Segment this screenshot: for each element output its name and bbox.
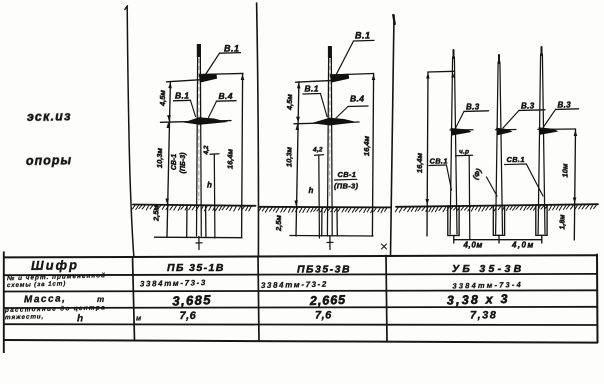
- label B3 for P3b: [521, 102, 535, 111]
- dim text 16,4м P2: [362, 135, 371, 156]
- bottom dim line P3 gap2 with ticks: [499, 236, 542, 243]
- svg-text:СВ.1: СВ.1: [507, 155, 525, 164]
- label B1 left mid of P1: [175, 91, 189, 101]
- table row line 3: [4, 290, 598, 291]
- svg-text:эск.из: эск.из: [27, 109, 72, 124]
- svg-text:3384тм-73-2: 3384тм-73-2: [261, 280, 328, 290]
- svg-text:СВ.1: СВ.1: [430, 157, 448, 166]
- label B1 top of P2: [355, 31, 371, 41]
- bottom dimension line P1: [155, 236, 243, 239]
- svg-text:2,5м: 2,5м: [274, 215, 283, 232]
- svg-text:опоры: опоры: [26, 153, 72, 168]
- dim text 10,3м P1: [155, 147, 164, 168]
- dim text 16,4м P1: [226, 148, 235, 169]
- table top border: [4, 255, 598, 257]
- table row line 5: [4, 323, 598, 326]
- svg-text:4,5м: 4,5м: [285, 94, 294, 111]
- table right border: [596, 254, 599, 343]
- small dim ч.р line P3: [459, 149, 469, 156]
- table column divider 2: [258, 256, 259, 342]
- label (Ф) P3: [471, 167, 484, 181]
- label B4 right mid of P1: [219, 91, 233, 101]
- pole P3c shaft (tapered): [538, 47, 545, 234]
- top crossarm of P2: [330, 74, 349, 83]
- frame divider line 1: [125, 6, 134, 256]
- table bottom border: [4, 340, 598, 343]
- svg-text:4,0м: 4,0м: [463, 241, 483, 250]
- svg-text:3384тм-73-3: 3384тм-73-3: [140, 278, 207, 288]
- table left border: [3, 252, 5, 354]
- dim text 4,0м gap1: [463, 241, 483, 250]
- table column divider 1: [133, 256, 135, 341]
- dim text 4,0м gap2: [511, 241, 535, 250]
- top dimension line P1: [167, 73, 244, 81]
- small dim 4,2 line P2: [315, 155, 324, 238]
- left dimension line P2: [294, 82, 300, 236]
- label СВ.1 for P3b: [507, 155, 525, 164]
- svg-text:16,4м: 16,4м: [362, 135, 371, 156]
- svg-text:В.4: В.4: [219, 91, 233, 101]
- top dimension line P2: [296, 74, 374, 83]
- pole P3a footing: [448, 206, 459, 236]
- pole P3c footing: [536, 205, 547, 235]
- right dimension line P1: [242, 73, 243, 237]
- svg-text:УБ 35-3В: УБ 35-3В: [452, 263, 524, 275]
- label B3 for P3c: [558, 101, 572, 110]
- table row line 2: [4, 274, 598, 275]
- dim text 10,3м P2: [285, 146, 294, 167]
- ground line P1: [132, 205, 255, 212]
- table column divider 3: [386, 255, 387, 342]
- svg-text:3,685: 3,685: [172, 292, 212, 308]
- svg-text:h: h: [309, 186, 314, 195]
- pole P3b footing: [493, 206, 504, 236]
- svg-text:В.3: В.3: [521, 102, 535, 111]
- bottom dim line P3 gap1 with ticks: [454, 236, 499, 243]
- svg-text:(ПБ-3): (ПБ-3): [180, 152, 187, 174]
- pole type text СВ-1 (ПБ-3) P1 rotated: [171, 152, 187, 174]
- svg-text:h: h: [207, 181, 212, 190]
- pole P1 shaft: [197, 44, 202, 236]
- crossarm of P3c: [538, 127, 576, 135]
- svg-text:расстояние до центра: расстояние до центра: [4, 303, 106, 314]
- dim text 16,4м P3: [415, 152, 424, 173]
- svg-text:Масса,: Масса,: [24, 293, 67, 305]
- label h P2: [309, 186, 314, 195]
- pole P3b shaft (tapered): [496, 55, 503, 234]
- label СВ.1 for P3a: [430, 157, 448, 166]
- svg-text:СВ-1: СВ-1: [338, 170, 357, 179]
- dim text 1,8м P3: [560, 214, 567, 230]
- svg-text:4,5м: 4,5м: [158, 90, 167, 107]
- svg-text:4,2: 4,2: [312, 147, 323, 154]
- small dim 4,2 line P1: [210, 154, 219, 238]
- svg-text:10,3м: 10,3м: [285, 146, 294, 167]
- pole P2 footing below ground: [322, 207, 338, 249]
- top crossarm of P1: [199, 74, 217, 83]
- svg-text:10,3м: 10,3м: [155, 147, 164, 168]
- svg-text:3384тм-73-4: 3384тм-73-4: [452, 280, 523, 290]
- right dimension line P2: [372, 73, 373, 236]
- svg-text:ПБ 35-1В: ПБ 35-1В: [167, 262, 225, 274]
- svg-text:7,6: 7,6: [315, 310, 332, 322]
- label B1 top of P1: [224, 44, 240, 54]
- ground line P3: [395, 204, 598, 212]
- svg-text:1,8м: 1,8м: [560, 214, 567, 230]
- margin label: опоры: [26, 153, 72, 168]
- svg-text:ч.р: ч.р: [459, 149, 469, 156]
- lower crossarm of P1: [184, 117, 229, 125]
- dim text 4,5м P2: [285, 94, 294, 111]
- dim text 4,5м P1: [158, 90, 167, 107]
- margin label: эскиз: [27, 109, 72, 124]
- svg-text:В.3: В.3: [558, 101, 572, 110]
- svg-text:(Ф): (Ф): [471, 167, 484, 181]
- svg-text:(ПВ-3): (ПВ-3): [334, 182, 358, 191]
- lower crossarm of P2: [311, 118, 358, 126]
- label B1 left mid of P2: [305, 84, 319, 94]
- pole P2 shaft: [327, 46, 332, 236]
- pole type text СВ-1 / (ПВ-3) P2: [334, 170, 358, 191]
- svg-text:схемы (за 1ст): схемы (за 1ст): [7, 280, 66, 289]
- TABLE: [4, 252, 598, 354]
- svg-text:h: h: [77, 314, 83, 325]
- svg-text:16,4м: 16,4м: [415, 152, 424, 173]
- label B4 right mid of P2: [350, 94, 364, 104]
- crossarm level line P2: [294, 122, 359, 124]
- svg-text:В.1: В.1: [224, 44, 240, 54]
- svg-text:4,0м: 4,0м: [511, 241, 535, 250]
- dim text 10м P3: [561, 163, 570, 177]
- pole P1 footing below ground: [187, 205, 206, 249]
- stray x mark near divider: [382, 244, 387, 249]
- label B3 for P3a: [466, 103, 480, 112]
- svg-text:В.3: В.3: [466, 103, 480, 112]
- svg-text:Шифр: Шифр: [31, 257, 79, 273]
- pole P3a shaft (tapered): [450, 50, 457, 234]
- svg-text:2,665: 2,665: [309, 293, 347, 308]
- svg-text:16,4м: 16,4м: [226, 148, 235, 169]
- svg-text:СВ-1: СВ-1: [171, 154, 178, 170]
- svg-text:7,38: 7,38: [470, 310, 497, 322]
- right dimension line P3: [573, 129, 577, 240]
- table row line 4: [4, 307, 598, 308]
- dim text 2,5м P1: [152, 205, 161, 222]
- left dimension line P1: [165, 82, 172, 237]
- svg-text:ПБ35-3В: ПБ35-3В: [297, 264, 351, 276]
- svg-text:10м: 10м: [561, 163, 570, 177]
- svg-text:В.4: В.4: [350, 94, 364, 104]
- left dimension line P3: [425, 71, 454, 236]
- crossarm level line P1: [161, 121, 232, 123]
- svg-text:тяжести,: тяжести,: [5, 313, 44, 321]
- svg-text:м: м: [136, 316, 142, 323]
- dim text 2,5м P2: [274, 215, 283, 232]
- svg-text:3,38 х 3: 3,38 х 3: [447, 292, 510, 308]
- svg-text:т: т: [97, 295, 104, 304]
- svg-text:В.1: В.1: [355, 31, 371, 41]
- ground line P2: [259, 207, 391, 213]
- crossarm of P3b: [496, 128, 517, 135]
- frame divider line 2: [257, 3, 259, 256]
- bottom dimension line P2: [290, 235, 373, 238]
- svg-text:4,2: 4,2: [203, 145, 210, 155]
- crossarm of P3a: [450, 128, 473, 136]
- svg-text:В.1: В.1: [175, 91, 189, 101]
- frame divider line 3: [391, 15, 395, 256]
- svg-text:В.1: В.1: [305, 84, 319, 94]
- label h P1: [207, 181, 212, 190]
- svg-text:7,6: 7,6: [180, 310, 197, 322]
